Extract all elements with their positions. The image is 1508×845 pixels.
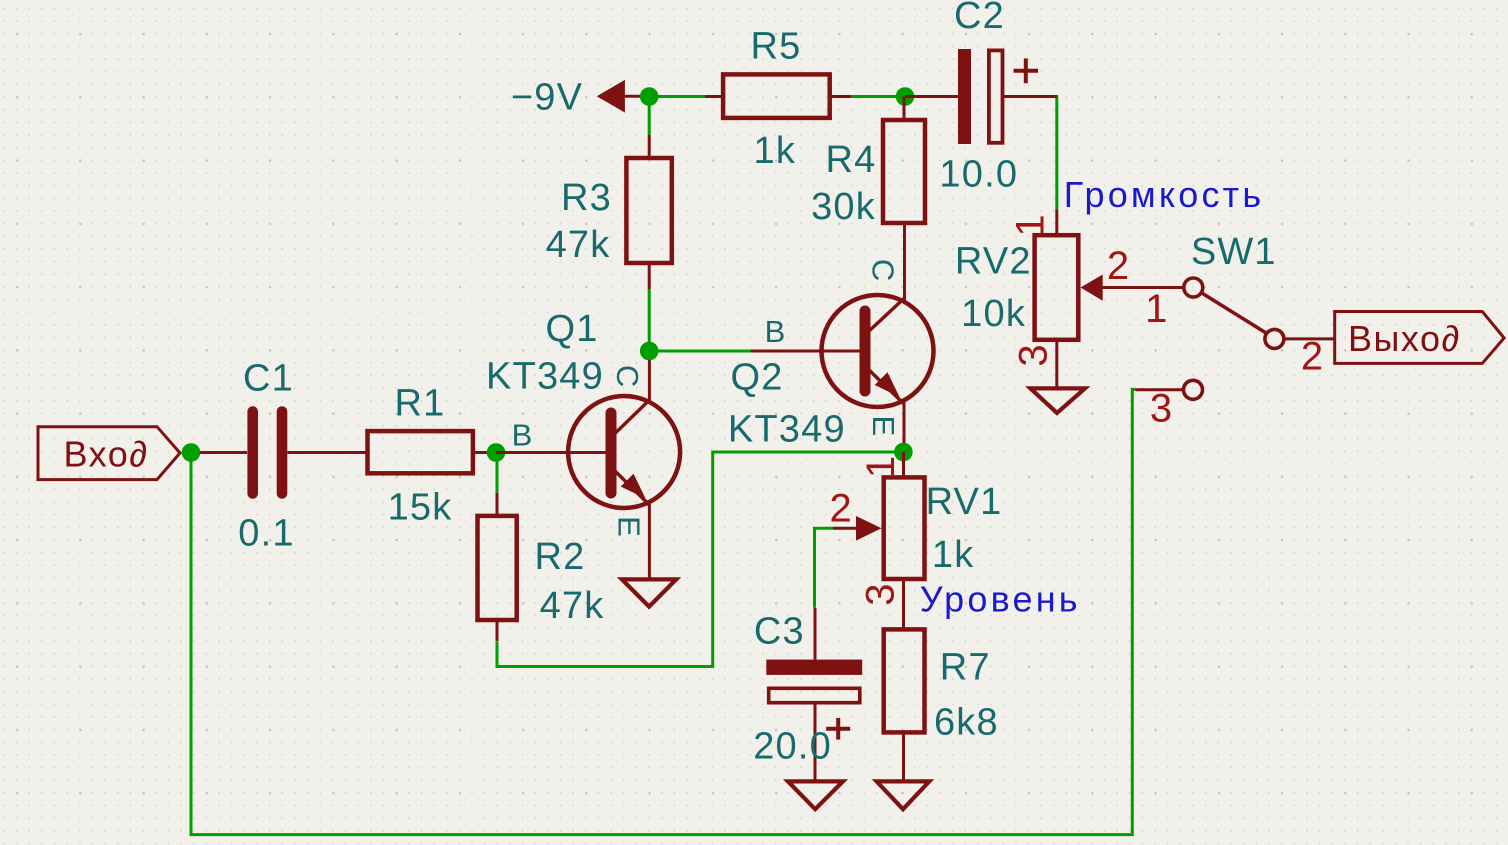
svg-text:B: B	[765, 314, 786, 349]
wire Q1 collector node to Q2 base	[649, 350, 751, 353]
svg-text:6k8: 6k8	[934, 702, 999, 744]
plus sign C2	[1014, 58, 1039, 83]
junction Q2 emitter node	[894, 443, 913, 462]
svg-text:1k: 1k	[754, 130, 797, 172]
junction Q1 collector node	[640, 342, 659, 361]
svg-text:SW1: SW1	[1191, 231, 1277, 273]
wire RV1 wiper to C3	[815, 528, 834, 608]
svg-text:−9V: −9V	[511, 77, 583, 119]
svg-text:2: 2	[1107, 244, 1129, 288]
svg-text:C: C	[610, 365, 645, 387]
svg-text:1: 1	[1009, 214, 1053, 236]
wire -9V rail segments	[640, 97, 905, 136]
svg-text:C3: C3	[754, 611, 805, 653]
svg-text:15k: 15k	[388, 487, 453, 529]
svg-text:Выхо∂: Выхо∂	[1348, 318, 1461, 359]
svg-text:10.0: 10.0	[939, 154, 1018, 196]
resistor R4	[883, 120, 925, 223]
plus sign C3	[826, 718, 850, 740]
svg-text:Уровень: Уровень	[920, 579, 1081, 620]
svg-text:2: 2	[1301, 334, 1323, 378]
switch SW1	[1184, 278, 1284, 399]
wire C2 to RV2 pin 1	[1055, 97, 1057, 210]
capacitor C3 polarized	[766, 660, 862, 675]
potentiometer RV1	[884, 477, 925, 579]
resistor R2	[478, 516, 517, 620]
svg-text:30k: 30k	[811, 186, 876, 228]
resistor R3	[626, 158, 671, 263]
svg-text:Громкость: Громкость	[1064, 174, 1265, 215]
ground at C3	[788, 781, 843, 809]
resistor R1	[368, 431, 473, 473]
ground at Q1 emitter	[622, 579, 676, 606]
svg-text:3: 3	[1150, 387, 1172, 431]
svg-text:3: 3	[858, 583, 902, 605]
ground at R7	[877, 781, 930, 809]
svg-text:Q1: Q1	[545, 308, 598, 350]
svg-text:B: B	[512, 418, 533, 453]
global label Выход	[1335, 312, 1504, 364]
svg-text:1: 1	[859, 456, 903, 478]
junction -9V node	[640, 87, 659, 106]
svg-text:0.1: 0.1	[238, 513, 294, 555]
svg-text:C: C	[865, 259, 900, 281]
junction R5/R4/C2 node	[896, 87, 915, 106]
capacitor C2 polarized	[958, 49, 971, 144]
power symbol -9V	[597, 80, 625, 113]
svg-text:47k: 47k	[546, 224, 611, 266]
svg-text:C2: C2	[954, 0, 1005, 37]
wire junction to R2 top	[496, 453, 499, 493]
svg-text:47k: 47k	[540, 585, 605, 627]
wire R3 bottom to collector node	[648, 289, 651, 351]
capacitor C1	[253, 412, 282, 494]
svg-text:R1: R1	[395, 382, 446, 424]
svg-text:R5: R5	[751, 26, 802, 68]
ground at RV2	[1030, 388, 1085, 413]
svg-text:10k: 10k	[961, 293, 1026, 335]
svg-text:RV1: RV1	[926, 481, 1003, 523]
svg-text:KT349: KT349	[728, 408, 846, 450]
svg-text:Вхо∂: Вхо∂	[63, 434, 148, 475]
resistor R7	[884, 629, 925, 732]
svg-text:E: E	[866, 416, 901, 437]
transistor Q2 KT349	[751, 295, 934, 452]
resistor R5	[723, 74, 830, 118]
svg-text:R4: R4	[826, 139, 877, 181]
potentiometer RV2	[1035, 235, 1079, 340]
transistor Q1 KT349	[496, 351, 680, 578]
junction at Q1 base	[487, 443, 506, 462]
wire from R2 bottom to Q2 emitter rail	[497, 452, 903, 667]
junction at input label	[182, 443, 201, 462]
svg-text:2: 2	[829, 486, 851, 530]
svg-text:1k: 1k	[932, 534, 975, 576]
svg-text:KT349: KT349	[486, 355, 604, 397]
svg-text:Q2: Q2	[730, 356, 783, 398]
svg-text:R2: R2	[535, 536, 586, 578]
svg-text:R3: R3	[561, 177, 612, 219]
wire feedback loop from input to SW1 pin 3	[191, 389, 1136, 834]
svg-text:R7: R7	[940, 647, 991, 689]
svg-text:1: 1	[1145, 287, 1167, 331]
svg-text:C1: C1	[243, 358, 294, 400]
svg-text:RV2: RV2	[955, 240, 1032, 282]
svg-text:E: E	[612, 516, 647, 537]
global label Вход	[38, 427, 180, 480]
svg-text:3: 3	[1012, 344, 1056, 366]
svg-text:20.0: 20.0	[753, 726, 832, 768]
